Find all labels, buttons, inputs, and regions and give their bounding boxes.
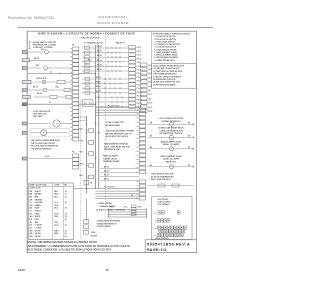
- bus 3 bottom terminal: [84, 180, 89, 185]
- vertical bus 2: [98, 45, 100, 189]
- svg-text:P10-8: P10-8: [137, 73, 141, 75]
- component box: [57, 80, 65, 83]
- middle wire row 6: [82, 70, 129, 72]
- svg-text:(3) RELAY CONTACTS SHOWN IN: (3) RELAY CONTACTS SHOWN IN: [153, 75, 182, 78]
- svg-text:LT GRN: LT GRN: [35, 227, 42, 229]
- svg-text:VIEWED FROM REAR OF: VIEWED FROM REAR OF: [97, 222, 117, 225]
- svg-text:BR-22: BR-22: [104, 175, 109, 177]
- svg-text:GRAY: GRAY: [35, 212, 41, 215]
- svg-text:CONNECTED AT: CONNECTED AT: [103, 157, 118, 160]
- svg-text:BK-61: BK-61: [97, 51, 102, 53]
- svg-text:BU-7: BU-7: [54, 208, 58, 210]
- svg-text:PAGE:1/2: PAGE:1/2: [147, 248, 167, 252]
- svg-text:LB-3: LB-3: [54, 225, 58, 227]
- svg-text:25: 25: [65, 233, 67, 235]
- wire row door switch: [28, 51, 44, 53]
- component row C: [23, 95, 31, 98]
- svg-text:DOUBLE LINE BREAK RELAY: DOUBLE LINE BREAK RELAY: [158, 127, 184, 130]
- center wire rows lower: [100, 168, 139, 170]
- svg-text:WH-RD: WH-RD: [35, 230, 42, 232]
- pin cluster P6 upper: [155, 228, 156, 229]
- right circuit wire 2: [147, 136, 193, 138]
- svg-text:CONV FAN MOTOR: CONV FAN MOTOR: [33, 110, 51, 113]
- connector strip P1: [73, 47, 79, 51]
- svg-text:GY-4: GY-4: [45, 155, 49, 158]
- svg-text:BR-23: BR-23: [104, 179, 109, 181]
- svg-text:WH-1: WH-1: [54, 216, 58, 218]
- svg-text:REFERENCE ONLY: REFERENCE ONLY: [104, 149, 121, 151]
- svg-text:(1) QUICK CONNECT TERMINAL: (1) QUICK CONNECT TERMINAL: [96, 208, 126, 211]
- svg-text:5995471B58 REV:A: 5995471B58 REV:A: [147, 243, 190, 247]
- connector stack P3 small: [131, 205, 136, 207]
- svg-text:NOTE: DISCONNECT POWER AT SOUR: NOTE: DISCONNECT POWER AT SOURCE: [153, 32, 191, 35]
- middle wire short row b3: [96, 106, 129, 108]
- svg-text:RD-12: RD-12: [96, 86, 101, 88]
- boxed notes block: [152, 63, 197, 88]
- svg-text:BR-21: BR-21: [104, 171, 109, 173]
- bracket left: [29, 40, 30, 42]
- wire: [48, 51, 72, 53]
- svg-text:WR-5: WR-5: [54, 230, 58, 232]
- node line L1: [28, 73, 72, 75]
- bus 3 twig 3: [87, 153, 89, 155]
- bus junction dots: [95, 73, 97, 75]
- svg-text:5. COOLING FAN MOTOR: 5. COOLING FAN MOTOR: [154, 46, 176, 49]
- svg-text:WIRING DIAGRAM: WIRING DIAGRAM: [97, 21, 129, 25]
- svg-text:HIGH VOLTAGE IS PRESENT AT: HIGH VOLTAGE IS PRESENT AT: [31, 145, 59, 148]
- cooling fan dashed enclosure: [31, 129, 70, 137]
- svg-text:AVERTISSEMENT: LA CONNEXION DO: AVERTISSEMENT: LA CONNEXION DOIT ETRE FA…: [28, 245, 131, 248]
- convection motor symbol: [28, 123, 51, 125]
- svg-text:DE-ENERGIZED POSITION: DE-ENERGIZED POSITION: [160, 133, 183, 135]
- svg-text:RD-12: RD-12: [33, 86, 38, 88]
- right circuit wire 1: [147, 123, 193, 125]
- svg-text:GY-8: GY-8: [80, 141, 84, 143]
- svg-text:WHITE: WHITE: [35, 216, 41, 218]
- middle wire short row 3: [82, 87, 129, 89]
- pin cluster P7: [155, 235, 156, 236]
- svg-text:BEFORE SERVICING UNIT TO: BEFORE SERVICING UNIT TO: [106, 133, 132, 135]
- svg-text:J2-6: J2-6: [148, 86, 151, 88]
- svg-text:J2-11: J2-11: [148, 107, 152, 109]
- svg-text:RD-3: RD-3: [54, 196, 58, 198]
- svg-text:P1-1 P1-2 P1-3: P1-1 P1-2 P1-3: [108, 106, 119, 108]
- svg-text:P2: P2: [72, 152, 74, 154]
- vertical dashed chassis line: [105, 31, 107, 230]
- svg-text:EW30ES65GS8: EW30ES65GS8: [99, 15, 126, 19]
- svg-text:BK-9: BK-9: [80, 175, 84, 177]
- pin cluster P4: [177, 211, 180, 214]
- middle wire row 4: [82, 61, 129, 63]
- bus 3 twig 5: [87, 176, 89, 178]
- left rail: [26, 31, 28, 252]
- svg-text:BLACK: BLACK: [35, 190, 42, 193]
- svg-text:BAKE ELEMENT 2500W: BAKE ELEMENT 2500W: [161, 140, 182, 143]
- svg-text:VIOLET: VIOLET: [35, 211, 42, 213]
- svg-text:THE MOTOR WINDINGS: THE MOTOR WINDINGS: [31, 148, 52, 150]
- svg-text:TERMINAL BOARD: TERMINAL BOARD: [103, 160, 120, 163]
- svg-text:BR-2: BR-2: [54, 194, 58, 196]
- svg-text:(EOC) BOARD: (EOC) BOARD: [158, 203, 170, 206]
- svg-text:ADD 2 OHM PER DEG F: ADD 2 OHM PER DEG F: [151, 178, 172, 181]
- wiring color code table: [29, 183, 73, 240]
- harness bundle end bars: [108, 209, 110, 219]
- middle wire short row b2: [96, 101, 129, 103]
- middle wire short row b1: [96, 96, 129, 98]
- svg-text:(1) ALL WIRING SHOWN WITH DOOR: (1) ALL WIRING SHOWN WITH DOOR: [153, 64, 185, 67]
- svg-text:ELECTRIQUE. CONSULTER LA PLAQU: ELECTRIQUE. CONSULTER LA PLAQUETTE SIGNA…: [28, 248, 112, 251]
- svg-text:BK-65: BK-65: [97, 69, 102, 71]
- ribbon bus upper: [96, 107, 140, 109]
- svg-text:BK-63: BK-63: [97, 60, 102, 62]
- right circuit element symbol 3: [170, 147, 174, 151]
- svg-text:CONNECTIONS SHOWN ARE: CONNECTIONS SHOWN ARE: [97, 220, 121, 223]
- svg-text:BK-40: BK-40: [34, 57, 39, 60]
- svg-text:LT BLUE: LT BLUE: [35, 225, 43, 227]
- svg-text:J2-8: J2-8: [148, 94, 151, 96]
- svg-text:RD-11: RD-11: [96, 82, 101, 84]
- bus 3 twig 4: [87, 165, 89, 167]
- header rule: [18, 26, 213, 28]
- svg-text:SEE NOTE 4: SEE NOTE 4: [166, 160, 177, 163]
- oven light symbol: [42, 80, 46, 84]
- title block box: [145, 240, 197, 253]
- svg-text:WIRE NUMBERS SHOWN AT: WIRE NUMBERS SHOWN AT: [104, 143, 129, 146]
- svg-text:16: 16: [106, 268, 110, 272]
- svg-text:YL-5: YL-5: [54, 202, 58, 204]
- svg-text:CONTROL PANEL: CONTROL PANEL: [97, 225, 111, 228]
- pin cluster P3: [155, 213, 156, 214]
- svg-text:J2-2: J2-2: [148, 69, 151, 71]
- svg-text:CODE COLOR: CODE COLOR: [30, 188, 42, 190]
- svg-text:2. DOOR LATCH SWITCH: 2. DOOR LATCH SWITCH: [154, 38, 176, 41]
- svg-text:J2-12: J2-12: [148, 111, 152, 113]
- svg-text:4. CONVECTION FAN MOTOR: 4. CONVECTION FAN MOTOR: [154, 43, 180, 46]
- sensor connector chain: [84, 220, 89, 224]
- svg-text:P3-1: P3-1: [110, 206, 113, 208]
- right wire lower: [147, 185, 193, 187]
- svg-text:DS1: DS1: [41, 49, 45, 51]
- light switch symbol: [28, 67, 41, 69]
- svg-text:CLOSED AND OVEN AT ROOM: CLOSED AND OVEN AT ROOM: [153, 67, 179, 70]
- svg-text:SENSOR: SENSOR: [91, 235, 99, 237]
- component row A: [23, 80, 32, 83]
- svg-text:19: 19: [65, 216, 67, 218]
- middle wire short row 1: [82, 78, 129, 80]
- svg-text:BW: BW: [30, 233, 33, 235]
- svg-text:24: 24: [65, 229, 67, 232]
- cooling fan motor symbol: [41, 130, 47, 136]
- svg-text:BR-20: BR-20: [104, 167, 109, 169]
- vertical bus 1: [95, 45, 97, 189]
- node line L2: [28, 103, 72, 105]
- svg-text:P1: P1: [72, 45, 74, 47]
- svg-text:LIMIT TEMPERATURE ONLY: LIMIT TEMPERATURE ONLY: [153, 73, 177, 76]
- svg-text:11: 11: [65, 194, 67, 196]
- svg-text:10: 10: [65, 191, 67, 193]
- svg-text:P10-13: P10-13: [137, 92, 142, 94]
- frame bottom dashed line: [27, 252, 196, 254]
- svg-text:YELLOW: YELLOW: [35, 202, 43, 204]
- vertical dashed left line: [79, 100, 81, 240]
- svg-text:PANEL ELEMENT: PANEL ELEMENT: [103, 155, 119, 158]
- svg-text:BROIL ELEMENT 3500W: BROIL ELEMENT 3500W: [161, 156, 182, 158]
- svg-text:WH-6: WH-6: [80, 164, 84, 166]
- svg-text:TN-2: TN-2: [54, 222, 58, 224]
- svg-text:TO TERMINAL BLOCK: TO TERMINAL BLOCK: [84, 42, 104, 45]
- svg-text:10. MEAT PROBE JACK: 10. MEAT PROBE JACK: [154, 59, 175, 62]
- svg-text:AVOID ELECTRIC SHOCK: AVOID ELECTRIC SHOCK: [106, 135, 129, 138]
- right circuit wire 3: [147, 148, 193, 150]
- svg-text:20: 20: [65, 219, 67, 221]
- wire: [46, 81, 57, 83]
- svg-text:P2-1 P2-2 P2-3: P2-1 P2-2 P2-3: [104, 187, 115, 189]
- svg-text:J2-5: J2-5: [148, 82, 151, 84]
- svg-text:BROWN: BROWN: [35, 194, 43, 196]
- terminal box row 2: [23, 59, 30, 62]
- svg-text:J2-9: J2-9: [148, 98, 151, 100]
- svg-text:DE-ENERGIZED POSITION: DE-ENERGIZED POSITION: [153, 79, 176, 81]
- svg-text:CONTACTS SHOWN IN THE: CONTACTS SHOWN IN THE: [159, 129, 183, 132]
- svg-text:22: 22: [65, 225, 67, 227]
- svg-text:AT ROOM TEMPERATURE: AT ROOM TEMPERATURE: [151, 175, 174, 178]
- bus 3 twig 2: [87, 142, 89, 144]
- svg-text:240VAC 14.6 AMPS: 240VAC 14.6 AMPS: [163, 158, 180, 161]
- svg-text:P3-3: P3-3: [138, 206, 141, 208]
- door switch symbol DS1: [45, 50, 49, 54]
- connector stack C lower: [139, 180, 145, 183]
- svg-text:BK-1: BK-1: [54, 191, 58, 193]
- right circuit element symbol 2: [170, 135, 174, 139]
- svg-text:OR-3: OR-3: [55, 86, 59, 88]
- svg-text:BK-55: BK-55: [37, 93, 42, 95]
- svg-text:3000 RPM 1.2A: 3000 RPM 1.2A: [33, 113, 47, 116]
- svg-text:1. DOOR LATCH MOTOR: 1. DOOR LATCH MOTOR: [154, 35, 176, 38]
- connector stack B: [129, 46, 136, 49]
- svg-text:GN-6: GN-6: [54, 205, 58, 207]
- svg-text:— PANEL WIRING: — PANEL WIRING: [96, 202, 113, 205]
- svg-text:OVEN SENSOR 1080 OHM: OVEN SENSOR 1080 OHM: [151, 174, 174, 176]
- connector strip P2: [73, 154, 79, 157]
- right circuit element symbol 1: [170, 122, 174, 126]
- svg-text:P10-6: P10-6: [137, 66, 141, 68]
- svg-text:M: M: [56, 123, 58, 126]
- middle wire row 3: [82, 56, 129, 58]
- svg-text:CAUTION DISCONNECT POWER: CAUTION DISCONNECT POWER: [106, 130, 135, 133]
- svg-text:GREEN: GREEN: [35, 205, 42, 207]
- svg-text:P10-2: P10-2: [137, 51, 141, 53]
- svg-text:WIRE COLOR CODE: WIRE COLOR CODE: [30, 184, 48, 186]
- svg-text:(4) SEE TECH SHEET FOR TEST: (4) SEE TECH SHEET FOR TEST: [153, 81, 181, 84]
- diagram frame: [27, 31, 196, 252]
- svg-text:P3-2: P3-2: [124, 206, 127, 208]
- svg-text:ORANGE: ORANGE: [35, 198, 44, 201]
- svg-text:P10-3: P10-3: [137, 55, 141, 57]
- svg-text:12: 12: [65, 196, 67, 198]
- svg-text:RD-10: RD-10: [96, 77, 101, 79]
- svg-text:Publication No. 5995447234: Publication No. 5995447234: [8, 16, 54, 20]
- svg-text:P10-9: P10-9: [137, 77, 141, 79]
- bus 3 stubs top: [79, 116, 87, 118]
- oven control outline box EOC: [152, 197, 193, 240]
- svg-text:LOW VOLTAGE CIRCUITS AT: LOW VOLTAGE CIRCUITS AT: [159, 117, 185, 120]
- svg-text:BLUE: BLUE: [35, 208, 41, 210]
- svg-text:J2-1: J2-1: [148, 65, 151, 67]
- middle wire row 2: [82, 52, 129, 54]
- component row B: [28, 89, 43, 91]
- svg-text:BK-60: BK-60: [97, 46, 102, 48]
- svg-text:8408: 8408: [18, 268, 25, 272]
- svg-text:OVEN LIGHT: OVEN LIGHT: [36, 78, 47, 80]
- svg-text:26: 26: [65, 236, 67, 238]
- svg-text:WIRE DIAGRAM L1 CIRCUITS DE N: WIRE DIAGRAM L1 CIRCUITS DE NORMA / COND…: [38, 32, 135, 36]
- svg-text:CODE: CODE: [54, 184, 60, 186]
- svg-text:240VAC 10.4 AMPS: 240VAC 10.4 AMPS: [163, 143, 180, 146]
- svg-text:NO.: NO.: [64, 184, 68, 186]
- connector stack C upper: [141, 63, 147, 66]
- wire row 2: [28, 59, 72, 61]
- svg-text:7. BAKE ELEMENT 2500W: 7. BAKE ELEMENT 2500W: [154, 51, 177, 54]
- svg-text:RW: RW: [30, 236, 33, 238]
- svg-text:PINK: PINK: [35, 219, 40, 221]
- table column dividers: [52, 183, 54, 240]
- bus 3 junction dots: [86, 123, 87, 124]
- svg-text:POINTS AND RESISTANCE: POINTS AND RESISTANCE: [153, 83, 176, 86]
- svg-text:(2) TEMP SWITCH OPENS AT HIGH: (2) TEMP SWITCH OPENS AT HIGH: [153, 70, 183, 73]
- ribbon bus lower: [96, 188, 140, 190]
- svg-text:RD-WH: RD-WH: [35, 236, 42, 238]
- svg-text:GY-9: GY-9: [54, 213, 58, 215]
- svg-text:SW: SW: [36, 65, 39, 67]
- svg-text:BU-2: BU-2: [80, 129, 84, 131]
- svg-text:P10-10: P10-10: [137, 81, 142, 83]
- svg-text:J2-10: J2-10: [148, 103, 152, 105]
- svg-text:16: 16: [65, 208, 67, 210]
- middle wire row 1: [82, 47, 129, 49]
- svg-text:P10-5: P10-5: [137, 62, 141, 64]
- bus 3 twig 1: [87, 130, 89, 132]
- harness bundle wires: [109, 209, 147, 211]
- svg-text:P10-7: P10-7: [137, 70, 141, 72]
- middle wire short row 2: [82, 83, 129, 85]
- svg-text:14: 14: [65, 201, 67, 204]
- svg-text:J2-7: J2-7: [148, 90, 151, 92]
- right circuit wire 4: [147, 166, 193, 168]
- middle wire short row 4: [82, 92, 129, 94]
- svg-text:TO BK CONNECTOR: TO BK CONNECTOR: [106, 122, 124, 124]
- pin cluster P5: [155, 221, 156, 222]
- pin cluster P6 lower: [159, 229, 162, 232]
- svg-text:120V 60HZ: 120V 60HZ: [33, 116, 43, 118]
- connector stack C mid: [139, 108, 145, 111]
- svg-text:BK-WH: BK-WH: [35, 233, 42, 235]
- svg-text:CIRCUIT DU FOUR: CIRCUIT DU FOUR: [81, 38, 100, 40]
- svg-text:9. HIDDEN BAKE ELEMENT: 9. HIDDEN BAKE ELEMENT: [154, 56, 178, 59]
- notes column divider: [151, 31, 153, 88]
- svg-text:RD-13: RD-13: [96, 91, 101, 93]
- sensor drop line: [85, 199, 87, 220]
- right circuit element symbol 4: [170, 165, 174, 169]
- svg-text:NOTICE: THIS WIRING DIAGRAM CO: NOTICE: THIS WIRING DIAGRAM COVERS ALL M…: [28, 241, 98, 244]
- svg-text:THE COOLING FAN CIRCUIT: THE COOLING FAN CIRCUIT: [31, 142, 56, 145]
- left frame terminal tabs: [22, 51, 27, 54]
- svg-text:18: 18: [65, 213, 67, 215]
- svg-text:RELAY K1: RELAY K1: [116, 42, 125, 45]
- svg-text:EACH COMPONENT ARE FOR: EACH COMPONENT ARE FOR: [104, 145, 130, 148]
- svg-text:P10-11: P10-11: [137, 84, 142, 86]
- svg-text:USE CAUTION WHEN SERVICING: USE CAUTION WHEN SERVICING: [31, 139, 60, 142]
- svg-text:AT REAR PANEL: AT REAR PANEL: [106, 124, 121, 127]
- svg-text:BK-62: BK-62: [97, 55, 102, 57]
- svg-text:BW-6: BW-6: [54, 233, 58, 235]
- transformer box: [83, 100, 94, 107]
- svg-text:P10-1: P10-1: [137, 47, 141, 49]
- wire: [48, 67, 73, 69]
- dashed branch horizontal: [80, 66, 106, 68]
- vertical bus 3: [86, 116, 88, 194]
- middle wire row 5: [82, 65, 129, 67]
- wire row lower: [28, 158, 72, 160]
- svg-text:J2-3: J2-3: [148, 73, 151, 75]
- table-to-bus link wire: [73, 188, 95, 190]
